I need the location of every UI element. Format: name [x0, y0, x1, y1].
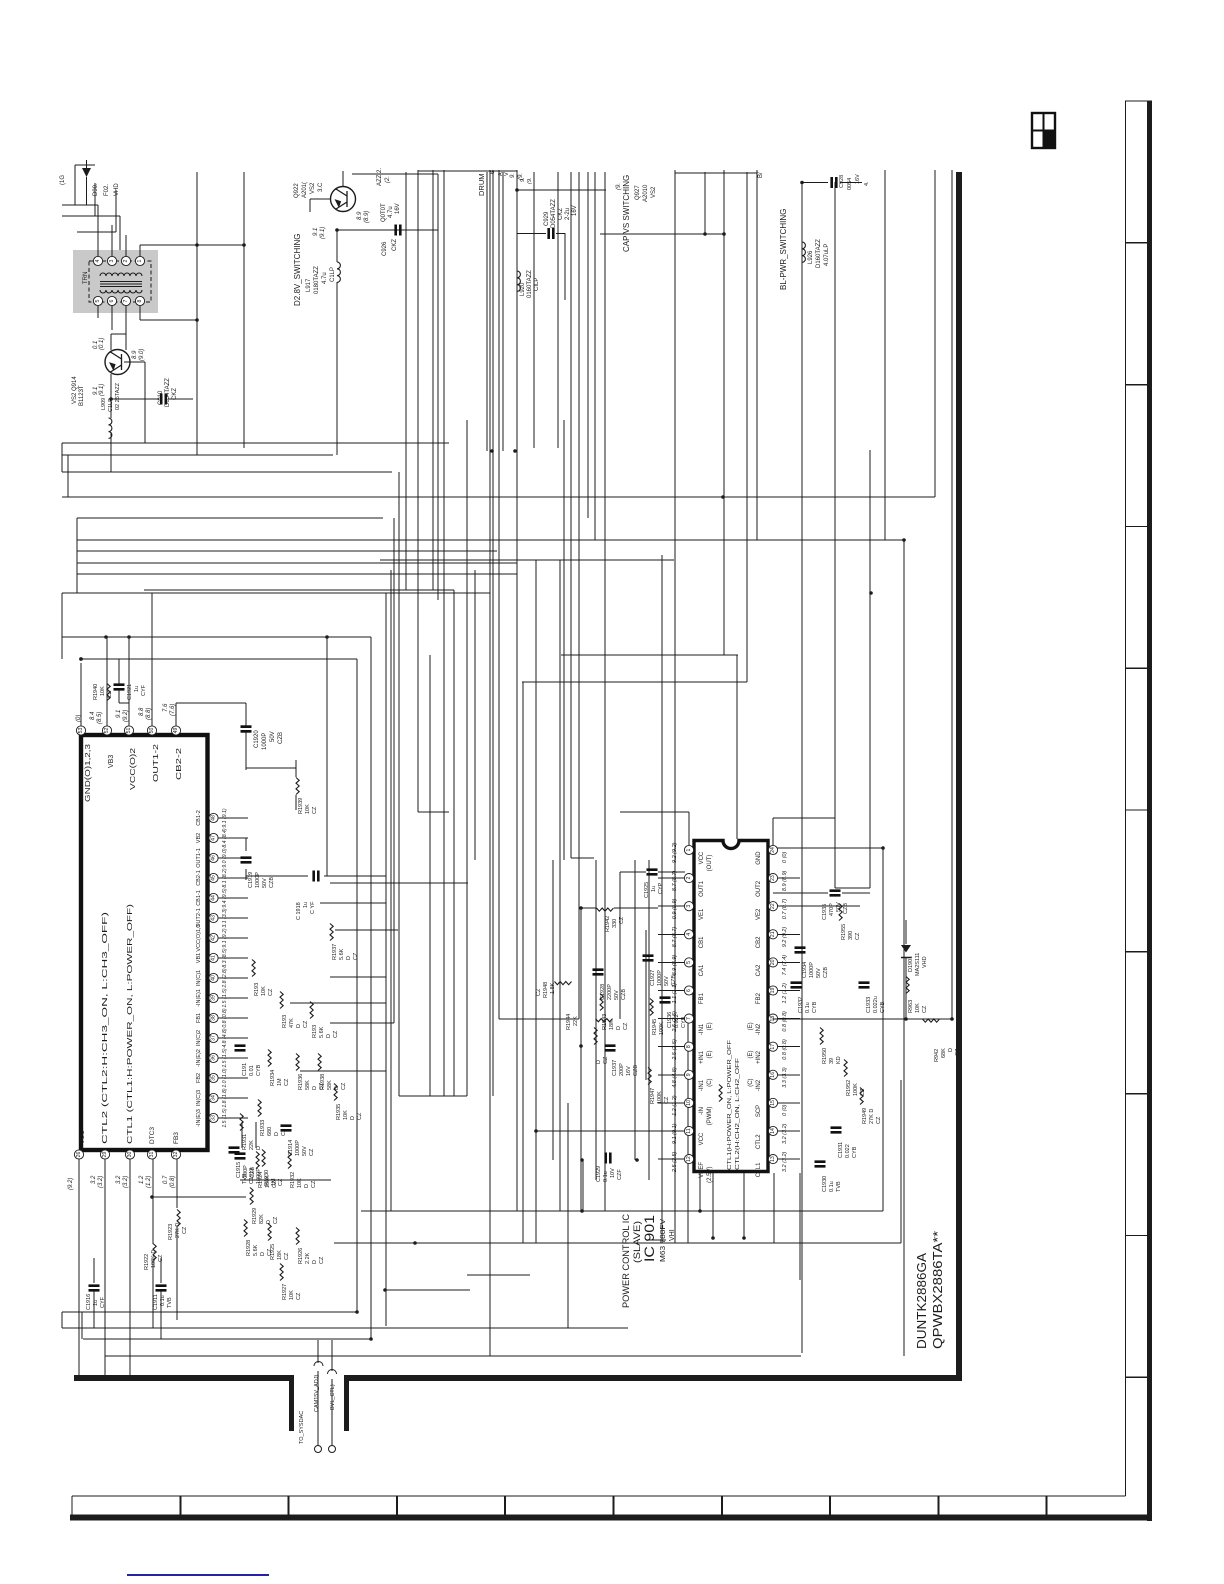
svg-text:50V: 50V [614, 990, 620, 1000]
svg-text:1000P: 1000P [255, 872, 261, 888]
svg-text:18K: 18K [277, 1250, 283, 1260]
svg-text:8.4 (8.4): 8.4 (8.4) [222, 828, 228, 848]
svg-text:CZB: CZB [278, 732, 284, 744]
svg-text:38: 38 [211, 1015, 217, 1021]
svg-text:C1930: C1930 [822, 1176, 828, 1192]
svg-text:C1927: C1927 [650, 970, 656, 986]
svg-text:VHD: VHD [114, 183, 120, 196]
svg-text:(1.2): (1.2) [146, 1176, 152, 1188]
svg-text:BL-PWR_SWITCHING: BL-PWR_SWITCHING [779, 209, 788, 290]
svg-text:-IN: -IN [699, 1107, 705, 1115]
svg-text:Q0T0T: Q0T0T [381, 203, 387, 222]
svg-text:10K: 10K [343, 1110, 349, 1120]
svg-text:26: 26 [76, 1152, 82, 1158]
svg-text:R1949: R1949 [862, 1108, 868, 1124]
svg-text:R1931: R1931 [242, 1134, 248, 1150]
svg-text:VB1: VB1 [196, 953, 202, 963]
svg-text:B/: B/ [758, 172, 764, 178]
svg-text:8: 8 [686, 1045, 692, 1048]
svg-text:VE1: VE1 [699, 908, 705, 920]
svg-text:6: 6 [686, 989, 692, 992]
svg-text:3.2 (3.2): 3.2 (3.2) [782, 1123, 788, 1144]
svg-text:39: 39 [211, 995, 217, 1001]
svg-text:15: 15 [770, 1100, 776, 1106]
svg-text:0180TAZZ: 0180TAZZ [314, 266, 320, 294]
svg-text:53: 53 [78, 728, 84, 734]
svg-text:FB3: FB3 [173, 1132, 180, 1144]
svg-text:100K D: 100K D [151, 1250, 157, 1268]
svg-text:4: 4 [95, 259, 101, 262]
svg-text:1.8 (1.8): 1.8 (1.8) [222, 1088, 228, 1108]
svg-text:8.4: 8.4 [90, 711, 96, 720]
svg-text:-IN(E)1: -IN(E)1 [196, 989, 202, 1007]
svg-text:10K: 10K [289, 1290, 295, 1300]
svg-text:C1925: C1925 [644, 882, 650, 898]
svg-text:2200P: 2200P [607, 984, 613, 1000]
svg-text:A2010: A2010 [643, 184, 649, 202]
svg-text:1000P: 1000P [657, 970, 663, 986]
svg-text:R1935: R1935 [336, 1104, 342, 1120]
svg-text:CZ: CZ [312, 806, 318, 814]
svg-text:B1123T: B1123T [79, 385, 85, 406]
svg-text:CTL1: CTL1 [756, 1162, 762, 1177]
svg-text:3.2 (3.2): 3.2 (3.2) [782, 1151, 788, 1172]
svg-text:OUT1-2: OUT1-2 [153, 744, 160, 782]
svg-text:CB2-1: CB2-1 [196, 870, 202, 886]
svg-text:0.1u: 0.1u [829, 1181, 835, 1192]
svg-text:CZ: CZ [855, 932, 861, 940]
svg-text:C1933: C1933 [866, 997, 872, 1013]
svg-text:R1939: R1939 [298, 798, 304, 814]
svg-text:SCP: SCP [756, 1105, 762, 1117]
svg-text:C1934: C1934 [802, 962, 808, 978]
svg-text:R1928: R1928 [246, 1240, 252, 1256]
svg-text:R1952: R1952 [846, 1080, 852, 1096]
svg-text:9.2 (9.2): 9.2 (9.2) [672, 842, 678, 863]
svg-text:CZ: CZ [922, 1005, 928, 1013]
svg-text:C926: C926 [382, 241, 388, 256]
svg-text:0.1u: 0.1u [603, 1171, 609, 1182]
svg-text:C1919: C1919 [248, 872, 254, 888]
svg-text:9: 9 [686, 1073, 692, 1076]
svg-text:(9.1): (9.1) [320, 227, 326, 239]
svg-text:CYP: CYP [658, 882, 664, 894]
svg-text:A201(: A201( [302, 182, 308, 198]
svg-text:-IN2: -IN2 [756, 1023, 762, 1035]
svg-text:D: D [346, 956, 352, 960]
svg-text:32: 32 [173, 1152, 179, 1158]
svg-text:(8.8): (8.8) [146, 708, 152, 720]
svg-text:CKZ: CKZ [172, 388, 178, 400]
svg-text:OUT2: OUT2 [756, 880, 762, 897]
svg-text:CZB: CZB [843, 903, 849, 914]
svg-text:43: 43 [211, 915, 217, 921]
svg-text:VCC: VCC [699, 1132, 705, 1145]
svg-text:100K: 100K [265, 1175, 271, 1188]
svg-text:-6: -6 [490, 171, 496, 176]
svg-text:R963: R963 [908, 1000, 914, 1013]
svg-text:9.: 9. [510, 173, 516, 178]
svg-text:CZ: CZ [955, 1048, 961, 1056]
svg-text:46: 46 [211, 855, 217, 861]
svg-text:C1932: C1932 [798, 997, 804, 1013]
svg-text:51: 51 [126, 728, 132, 734]
svg-text:CZ: CZ [311, 1180, 317, 1188]
svg-text:14: 14 [770, 1128, 776, 1134]
svg-text:C1916: C1916 [86, 1294, 92, 1310]
svg-text:0.8 (0.8): 0.8 (0.8) [222, 1008, 228, 1028]
svg-text:CB1: CB1 [699, 936, 705, 948]
svg-text:8.9: 8.9 [132, 350, 138, 359]
svg-text:19: 19 [770, 988, 776, 994]
svg-text:-IN(E)3: -IN(E)3 [196, 1109, 202, 1127]
svg-text:39: 39 [829, 1058, 835, 1064]
svg-text:CZ: CZ [296, 1292, 302, 1300]
svg-text:CAP VS SWITCHING: CAP VS SWITCHING [622, 175, 631, 252]
svg-text:CZ: CZ [319, 1256, 325, 1264]
svg-text:1: 1 [137, 259, 143, 262]
svg-text:100K: 100K [853, 1083, 859, 1096]
svg-text:CA2: CA2 [756, 964, 762, 976]
svg-text:CKZ: CKZ [392, 239, 398, 251]
svg-text:CZB: CZB [671, 975, 677, 986]
svg-text:8: 8 [137, 299, 143, 302]
svg-text:0.01: 0.01 [249, 1065, 255, 1076]
svg-text:R1926: R1926 [298, 1248, 304, 1264]
svg-text:OUT1: OUT1 [699, 880, 705, 897]
svg-text:47: 47 [211, 835, 217, 841]
svg-text:100K: 100K [657, 1091, 663, 1104]
svg-text:68K: 68K [941, 1048, 947, 1058]
svg-text:KD: KD [836, 1056, 842, 1064]
svg-text:TVB: TVB [167, 1297, 173, 1308]
svg-text:0 (0): 0 (0) [782, 852, 788, 863]
svg-text:CZ: CZ [623, 1022, 629, 1030]
svg-text:R1948: R1948 [543, 982, 549, 998]
svg-text:40: 40 [211, 975, 217, 981]
svg-text:CKZ: CKZ [558, 208, 564, 220]
svg-text:TVB: TVB [836, 1181, 842, 1192]
svg-text:DUNTK2886GA: DUNTK2886GA [914, 1253, 929, 1349]
svg-text:10K: 10K [297, 1178, 303, 1188]
svg-text:C1912: C1912 [249, 1168, 255, 1184]
svg-text:CB1-1: CB1-1 [196, 890, 202, 906]
svg-text:R1947: R1947 [650, 1088, 656, 1104]
svg-text:1u: 1u [303, 902, 309, 908]
svg-text:CZ: CZ [182, 1226, 188, 1234]
svg-text:3.2: 3.2 [116, 1175, 122, 1184]
svg-text:CZB: CZB [823, 967, 829, 978]
svg-text:(8.5): (8.5) [97, 712, 103, 724]
svg-text:CZ: CZ [353, 952, 359, 960]
svg-text:0160TAZZ: 0160TAZZ [527, 270, 533, 298]
svg-text:5.6K: 5.6K [339, 948, 345, 960]
svg-text:R1927: R1927 [282, 1284, 288, 1300]
svg-text:CYB: CYB [256, 1064, 262, 1076]
svg-text:(E): (E) [707, 1022, 713, 1030]
svg-text:R1922: R1922 [144, 1254, 150, 1270]
svg-text:4.: 4. [864, 181, 870, 186]
svg-text:6: 6 [109, 299, 115, 302]
svg-text:D: D [266, 1220, 272, 1224]
svg-text:16: 16 [770, 1072, 776, 1078]
svg-text:9.4 (9.5): 9.4 (9.5) [222, 888, 228, 908]
svg-text:7.6: 7.6 [163, 703, 169, 712]
svg-text:-IN1: -IN1 [699, 1079, 705, 1091]
svg-text:3.3 (3.3): 3.3 (3.3) [782, 1067, 788, 1088]
svg-text:R1945: R1945 [652, 1019, 658, 1035]
svg-text:F02.: F02. [104, 184, 110, 196]
svg-text:8.9 (8.9): 8.9 (8.9) [672, 955, 678, 976]
svg-text:C1935: C1935 [822, 904, 828, 920]
svg-text:C1937: C1937 [612, 1060, 618, 1076]
svg-text:D: D [312, 1260, 318, 1264]
svg-text:49: 49 [173, 728, 179, 734]
svg-text:8.3 (8.5): 8.3 (8.5) [222, 948, 228, 968]
svg-text:TRN: TRN [83, 272, 89, 284]
svg-text:1M: 1M [277, 1078, 283, 1086]
svg-text:GND: GND [756, 851, 762, 865]
svg-text:CYF: CYF [100, 1296, 106, 1308]
svg-text:D2.8V_SWITCHING: D2.8V_SWITCHING [293, 234, 302, 306]
svg-text:D90.: D90. [93, 183, 99, 196]
svg-text:D: D [256, 1146, 262, 1150]
svg-text:D: D [304, 1184, 310, 1188]
svg-text:(C): (C) [707, 1078, 713, 1086]
svg-text:C1LP: C1LP [108, 398, 114, 412]
svg-text:R942: R942 [934, 1049, 940, 1062]
svg-text:D: D [616, 1026, 622, 1030]
svg-text:(9.2): (9.2) [68, 1178, 74, 1190]
svg-text:1.0 (1.0): 1.0 (1.0) [222, 1068, 228, 1088]
svg-text:R1944: R1944 [566, 1014, 572, 1030]
svg-text:L917: L917 [306, 278, 312, 292]
svg-text:02 26TAZZ: 02 26TAZZ [115, 382, 121, 410]
svg-text:50V: 50V [816, 968, 822, 978]
svg-text:CZ: CZ [664, 1096, 670, 1104]
svg-text:(OUT): (OUT) [707, 855, 713, 872]
svg-text:VB3: VB3 [108, 755, 115, 768]
svg-text:VHD: VHD [922, 956, 928, 968]
svg-text:(0.1): (0.1) [99, 338, 105, 350]
svg-text:CYF: CYF [141, 684, 147, 696]
svg-text:0.8 (0.8): 0.8 (0.8) [782, 1011, 788, 1032]
svg-text:0.022u: 0.022u [873, 996, 879, 1013]
svg-text:3.2: 3.2 [91, 1175, 97, 1184]
svg-text:GND(O)1,2,3: GND(O)1,2,3 [85, 744, 92, 802]
svg-text:TO_SYSDAC: TO_SYSDAC [299, 1411, 305, 1444]
svg-text:CTL2(H:CH2_ON, L:CH2_OFF: CTL2(H:CH2_ON, L:CH2_OFF [735, 1057, 741, 1170]
svg-text:22K: 22K [573, 1016, 579, 1026]
svg-text:VCC: VCC [79, 1130, 86, 1144]
svg-text:16V: 16V [626, 1066, 632, 1076]
svg-text:R1940: R1940 [93, 684, 99, 700]
svg-text:13: 13 [770, 1156, 776, 1162]
svg-text:(C): (C) [748, 1078, 754, 1086]
svg-text:45: 45 [211, 875, 217, 881]
svg-text:R1932: R1932 [290, 1172, 296, 1188]
svg-text:2.2K: 2.2K [305, 1252, 311, 1264]
svg-text:CA1: CA1 [699, 964, 705, 976]
svg-text:4.8 (4.8): 4.8 (4.8) [672, 1067, 678, 1088]
svg-text:4.07uLP: 4.07uLP [824, 244, 830, 266]
svg-text:CZ: CZ [876, 1116, 882, 1124]
svg-text:R1925: R1925 [270, 1244, 276, 1260]
svg-text:CZF: CZF [617, 1169, 623, 1180]
svg-text:(2.: (2. [385, 176, 391, 183]
svg-text:470P: 470P [829, 903, 835, 916]
svg-text:D160TAZZ: D160TAZZ [816, 239, 822, 268]
svg-text:R193: R193 [312, 1025, 318, 1038]
svg-text:R1924: R1924 [258, 1172, 264, 1188]
svg-text:CILP: CILP [534, 278, 540, 291]
svg-text:1000P: 1000P [295, 1140, 301, 1156]
svg-text:(E): (E) [748, 1051, 754, 1059]
svg-text:2.8 (2.8): 2.8 (2.8) [222, 968, 228, 989]
svg-text:(9.1): (9.1) [99, 384, 105, 396]
svg-text:CB2-2: CB2-2 [176, 748, 183, 780]
svg-text:CB1-2: CB1-2 [196, 810, 202, 826]
svg-text:CYB: CYB [812, 1001, 818, 1013]
svg-text:35: 35 [211, 1075, 217, 1081]
svg-text:0.9 (0.9): 0.9 (0.9) [672, 899, 678, 920]
svg-text:VB2: VB2 [196, 833, 202, 843]
svg-text:1u: 1u [134, 686, 140, 692]
svg-text:29: 29 [102, 1152, 108, 1158]
svg-text:Q927: Q927 [635, 185, 641, 200]
svg-text:OUT1-1: OUT1-1 [196, 848, 202, 868]
svg-text:16V: 16V [855, 174, 861, 184]
svg-text:37: 37 [211, 1035, 217, 1041]
svg-text:C1928: C1928 [600, 984, 606, 1000]
svg-text:30: 30 [127, 1152, 133, 1158]
svg-text:VE2: VE2 [756, 908, 762, 920]
svg-text:AZZ 2.: AZZ 2. [377, 168, 383, 186]
svg-text:5: 5 [686, 961, 692, 964]
svg-text:VCC(O)1,3: VCC(O)1,3 [196, 924, 202, 951]
svg-text:2-2u: 2-2u [565, 208, 571, 220]
svg-text:1.5 (1.5): 1.5 (1.5) [222, 988, 228, 1008]
svg-text:C1921: C1921 [127, 684, 133, 700]
svg-text:C910: C910 [158, 390, 164, 405]
svg-text:16V: 16V [395, 203, 401, 214]
svg-text:7.4 (7.4): 7.4 (7.4) [782, 955, 788, 976]
svg-text:8.7 (8.7): 8.7 (8.7) [672, 927, 678, 948]
svg-text:(0): (0) [76, 715, 82, 722]
svg-text:CZ: CZ [603, 1056, 609, 1064]
svg-text:10K: 10K [100, 686, 106, 696]
svg-text:0 (0): 0 (0) [782, 1104, 788, 1115]
svg-text:1.8K: 1.8K [550, 982, 556, 994]
svg-text:680: 680 [267, 1127, 273, 1136]
svg-text:50V: 50V [270, 731, 276, 742]
svg-text:R1934: R1934 [270, 1070, 276, 1086]
svg-text:4: 4 [686, 933, 692, 936]
svg-text:0.022: 0.022 [674, 1014, 680, 1028]
svg-text:FB1: FB1 [699, 992, 705, 1004]
svg-text:R1943: R1943 [602, 1014, 608, 1030]
svg-text:50: 50 [149, 728, 155, 734]
svg-text:5: 5 [95, 299, 101, 302]
svg-text:-IN2: -IN2 [756, 1079, 762, 1091]
svg-text:9.1 (9.1): 9.1 (9.1) [672, 1123, 678, 1144]
svg-text:5.6K: 5.6K [319, 1026, 325, 1038]
svg-text:D054TAZZ: D054TAZZ [551, 199, 557, 228]
svg-text:(9.: (9. [527, 178, 533, 184]
svg-text:8.9: 8.9 [357, 211, 363, 220]
svg-text:+IN2: +IN2 [756, 1050, 762, 1064]
svg-text:L920: L920 [520, 282, 526, 296]
svg-text:CTL2: CTL2 [756, 1134, 762, 1149]
svg-text:0.7: 0.7 [163, 1175, 169, 1184]
svg-text:1: 1 [686, 848, 692, 851]
svg-text:9.1 (9.1): 9.1 (9.1) [222, 808, 228, 828]
svg-text:0.1u: 0.1u [805, 1002, 811, 1013]
svg-text:D: D [312, 1086, 318, 1090]
svg-text:(9.2): (9.2) [123, 710, 129, 722]
svg-text:2.5 (2.5): 2.5 (2.5) [672, 1151, 678, 1173]
svg-text:CTL1(H:POWER_ON, L:POWER_OFF: CTL1(H:POWER_ON, L:POWER_OFF [727, 1039, 733, 1170]
svg-text:R1937: R1937 [332, 944, 338, 960]
svg-text:3: 3 [686, 905, 692, 908]
svg-text:200P: 200P [619, 1063, 625, 1076]
svg-text:CZ: CZ [273, 1216, 279, 1224]
svg-text:9.1 (9.2): 9.1 (9.2) [222, 928, 228, 948]
svg-text:330: 330 [612, 919, 618, 928]
svg-text:DRUM: DRUM [477, 174, 486, 197]
svg-text:CYB: CYB [681, 1016, 687, 1028]
svg-text:50V: 50V [262, 878, 268, 888]
svg-text:47K: 47K [289, 1018, 295, 1028]
svg-text:390: 390 [848, 931, 854, 940]
svg-text:R1923: R1923 [168, 1224, 174, 1240]
svg-text:CZ: CZ [158, 1254, 164, 1262]
svg-text:FB2: FB2 [756, 992, 762, 1004]
svg-text:C929: C929 [544, 211, 550, 226]
svg-text:Q922: Q922 [294, 183, 300, 198]
svg-text:CZ: CZ [284, 1078, 290, 1086]
svg-text:VS2: VS2 [651, 186, 657, 198]
svg-text:R1942: R1942 [605, 916, 611, 932]
svg-text:CZ: CZ [303, 1020, 309, 1028]
svg-text:(PWM): (PWM) [707, 1107, 713, 1126]
svg-text:4.7u: 4.7u [322, 272, 328, 284]
svg-text:D: D [596, 1060, 602, 1064]
svg-text:9.2 (9.2): 9.2 (9.2) [782, 927, 788, 948]
svg-text:20: 20 [770, 959, 776, 965]
svg-text:VS2: VS2 [310, 182, 316, 194]
svg-text:CAM15V_ADJ): CAM15V_ADJ) [314, 1375, 320, 1412]
svg-text:44: 44 [211, 895, 217, 901]
svg-text:8.7 (8.7): 8.7 (8.7) [672, 870, 678, 891]
svg-text:0.022: 0.022 [845, 1144, 851, 1158]
svg-text:C1929: C1929 [596, 1166, 602, 1182]
svg-text:VHI: VHI [669, 1229, 676, 1241]
svg-text:C 1918: C 1918 [296, 902, 302, 920]
svg-text:27K D: 27K D [175, 1223, 181, 1238]
svg-text:R1933: R1933 [260, 1120, 266, 1136]
svg-text:D054TAZZ: D054TAZZ [165, 378, 171, 407]
svg-text:D: D [326, 1034, 332, 1038]
svg-text:CZB: CZB [633, 1065, 639, 1076]
svg-text:R193: R193 [254, 983, 260, 996]
svg-text:D: D [350, 1116, 356, 1120]
svg-text:10V: 10V [610, 1168, 616, 1178]
svg-text:IN(C)2: IN(C)2 [196, 1030, 202, 1046]
svg-text:TVB: TVB [242, 1173, 248, 1184]
svg-text:34: 34 [211, 1095, 217, 1101]
svg-text:L909: L909 [101, 398, 107, 410]
